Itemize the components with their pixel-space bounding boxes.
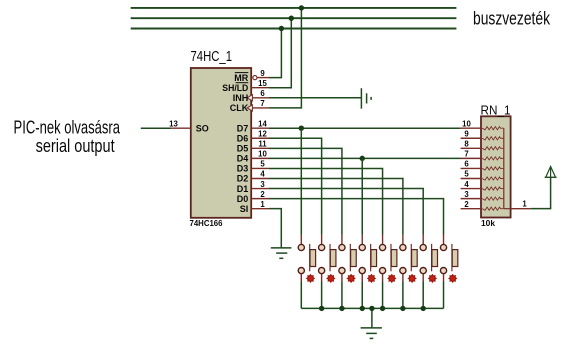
svg-text:74HC166: 74HC166	[190, 219, 223, 228]
junction D7 / button 1	[299, 126, 304, 131]
svg-text:5: 5	[260, 160, 265, 169]
wire SI to ground	[269, 209, 281, 248]
svg-text:CLK: CLK	[230, 103, 249, 113]
svg-text:14: 14	[258, 119, 267, 128]
svg-text:7: 7	[260, 99, 264, 108]
push button SW3	[339, 235, 356, 282]
wire D0 down to button 8	[269, 199, 444, 235]
RN_1 pin numbers	[462, 119, 471, 208]
svg-text:2: 2	[464, 200, 469, 209]
svg-text:D6: D6	[237, 133, 249, 143]
power symbol VCC (arrow)	[545, 167, 557, 178]
svg-text:D2: D2	[237, 174, 249, 184]
button SW8 red cap	[448, 274, 457, 283]
push button SW8	[440, 235, 457, 282]
svg-text:6: 6	[464, 160, 469, 169]
svg-text:8: 8	[464, 140, 469, 149]
junction ground tap	[369, 306, 374, 311]
svg-text:D3: D3	[237, 164, 249, 174]
ground (rotated) on INH	[361, 88, 371, 109]
svg-text:buszvezeték: buszvezeték	[473, 9, 551, 29]
junction button 4 / ground bus	[360, 306, 365, 311]
bus wire bottom	[131, 28, 457, 30]
wire button SW7 to ground bus	[422, 282, 424, 309]
svg-text:5: 5	[464, 170, 469, 179]
wire D6 down to button 2	[269, 138, 322, 234]
svg-text:15: 15	[258, 79, 267, 88]
U1 SO pin stub	[171, 127, 191, 129]
wire ground bus to ground	[371, 308, 373, 328]
junction button 3 / ground bus	[339, 306, 344, 311]
U1 INH input arrow	[247, 95, 252, 101]
svg-text:INH: INH	[233, 93, 249, 103]
svg-text:11: 11	[258, 140, 267, 149]
ground bus wire	[301, 307, 443, 309]
U1 MR inversion bubble	[253, 76, 257, 80]
RN_1 pin 1 stub	[511, 208, 531, 210]
svg-text:D0: D0	[237, 194, 249, 204]
svg-text:3: 3	[464, 190, 469, 199]
wire D5 down to button 3	[269, 148, 342, 234]
svg-text:6: 6	[260, 89, 265, 98]
svg-text:4: 4	[260, 170, 265, 179]
resistor network RN_1 body	[481, 116, 511, 217]
wire button SW3 to ground bus	[341, 282, 343, 309]
svg-text:D7: D7	[237, 123, 249, 133]
svg-text:SO: SO	[196, 123, 209, 133]
wire button SW1 to ground bus	[300, 282, 302, 309]
bus wire middle	[131, 17, 457, 19]
IC 74HC_1 (74HC166) body	[191, 68, 251, 218]
junction on bus middle line	[289, 16, 294, 21]
svg-text:7: 7	[464, 150, 468, 159]
svg-text:12: 12	[258, 129, 267, 138]
svg-text:74HC_1: 74HC_1	[191, 49, 233, 65]
svg-text:10: 10	[258, 150, 267, 159]
svg-text:D5: D5	[237, 144, 249, 154]
U1 CLK input arrow	[247, 105, 252, 111]
U1 pin names	[196, 73, 249, 214]
button SW1 red cap	[306, 274, 315, 283]
ground (bottom center)	[361, 328, 382, 339]
wire RN pin 1 to VCC	[531, 177, 551, 208]
wire SO output	[141, 127, 171, 129]
push button SW1	[298, 235, 315, 282]
RN_1 internal resistors	[482, 127, 510, 211]
svg-text:serial output: serial output	[36, 136, 115, 156]
svg-text:SH/LD: SH/LD	[222, 83, 248, 93]
svg-text:10: 10	[462, 119, 471, 128]
button SW6 red cap	[407, 274, 416, 283]
svg-text:3: 3	[260, 180, 265, 189]
svg-text:9: 9	[464, 129, 469, 138]
junction on bus top line	[299, 5, 304, 10]
wire SH/LD to bus middle line	[269, 18, 291, 88]
wire button SW6 to ground bus	[402, 282, 404, 309]
push button SW7	[420, 235, 437, 282]
wire button SW4 to ground bus	[361, 282, 363, 309]
wire D4 row to RN pin 7	[269, 157, 461, 159]
wire button SW5 to ground bus	[382, 282, 384, 309]
svg-text:10k: 10k	[481, 219, 495, 228]
junction button 2 / ground bus	[319, 306, 324, 311]
junction D4 / button 4	[360, 156, 365, 161]
svg-text:1: 1	[522, 199, 527, 208]
svg-text:1: 1	[260, 200, 265, 209]
junction on bus bottom line	[279, 26, 284, 31]
wire button SW2 to ground bus	[321, 282, 323, 309]
svg-text:D1: D1	[237, 184, 249, 194]
wire D3 down to button 5	[269, 168, 383, 234]
svg-text:PIC-nek olvasásra: PIC-nek olvasásra	[14, 117, 121, 137]
button SW3 red cap	[346, 274, 355, 283]
button SW2 red cap	[326, 274, 335, 283]
svg-text:SI: SI	[240, 204, 249, 214]
wire D2 down to button 6	[269, 179, 403, 235]
wire D1 down to button 7	[269, 189, 423, 235]
svg-text:4: 4	[464, 180, 469, 189]
svg-text:RN_1: RN_1	[481, 104, 511, 118]
U1 pin numbers (right side)	[258, 69, 267, 209]
button SW5 red cap	[387, 274, 396, 283]
bus wire top	[131, 7, 457, 9]
svg-text:13: 13	[169, 119, 178, 128]
RN_1 left pin stubs	[461, 128, 481, 208]
wire button 1 vertical to D7	[300, 128, 302, 234]
ground on SI	[271, 248, 292, 258]
button SW4 red cap	[367, 274, 376, 283]
button SW7 red cap	[428, 274, 437, 283]
wire button 4 vertical to D4	[361, 158, 363, 234]
svg-text:9: 9	[260, 69, 265, 78]
push button SW6	[400, 235, 417, 282]
wire D7 row to RN pin 10	[269, 127, 461, 129]
svg-text:D4: D4	[237, 154, 249, 164]
push button SW5	[379, 235, 396, 282]
push button SW2	[319, 235, 336, 282]
U1 right pin stubs	[251, 78, 269, 209]
junction button 6 / ground bus	[400, 306, 405, 311]
wire INH to ground	[269, 97, 361, 99]
wire CLK to bus top line	[269, 8, 301, 108]
wire MR to bus bottom line	[269, 29, 281, 78]
push button SW4	[359, 235, 376, 282]
junction button 5 / ground bus	[380, 306, 385, 311]
junction button 7 / ground bus	[421, 306, 426, 311]
wire button SW8 to ground bus	[443, 282, 445, 309]
svg-text:MR: MR	[234, 73, 248, 83]
svg-text:2: 2	[260, 190, 265, 199]
